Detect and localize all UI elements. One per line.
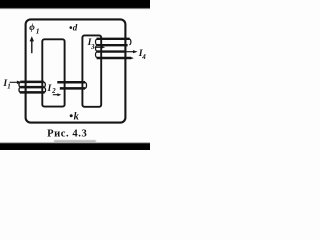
- svg-text:k: k: [74, 112, 80, 123]
- svg-text:d: d: [73, 23, 78, 33]
- svg-text:1: 1: [36, 26, 40, 35]
- svg-text:Рис. 4.3: Рис. 4.3: [47, 128, 87, 139]
- svg-text:1: 1: [7, 83, 11, 91]
- svg-text:3: 3: [90, 43, 95, 51]
- svg-text:2: 2: [51, 87, 56, 95]
- svg-text:ϕ: ϕ: [29, 22, 35, 33]
- svg-text:4: 4: [141, 53, 146, 61]
